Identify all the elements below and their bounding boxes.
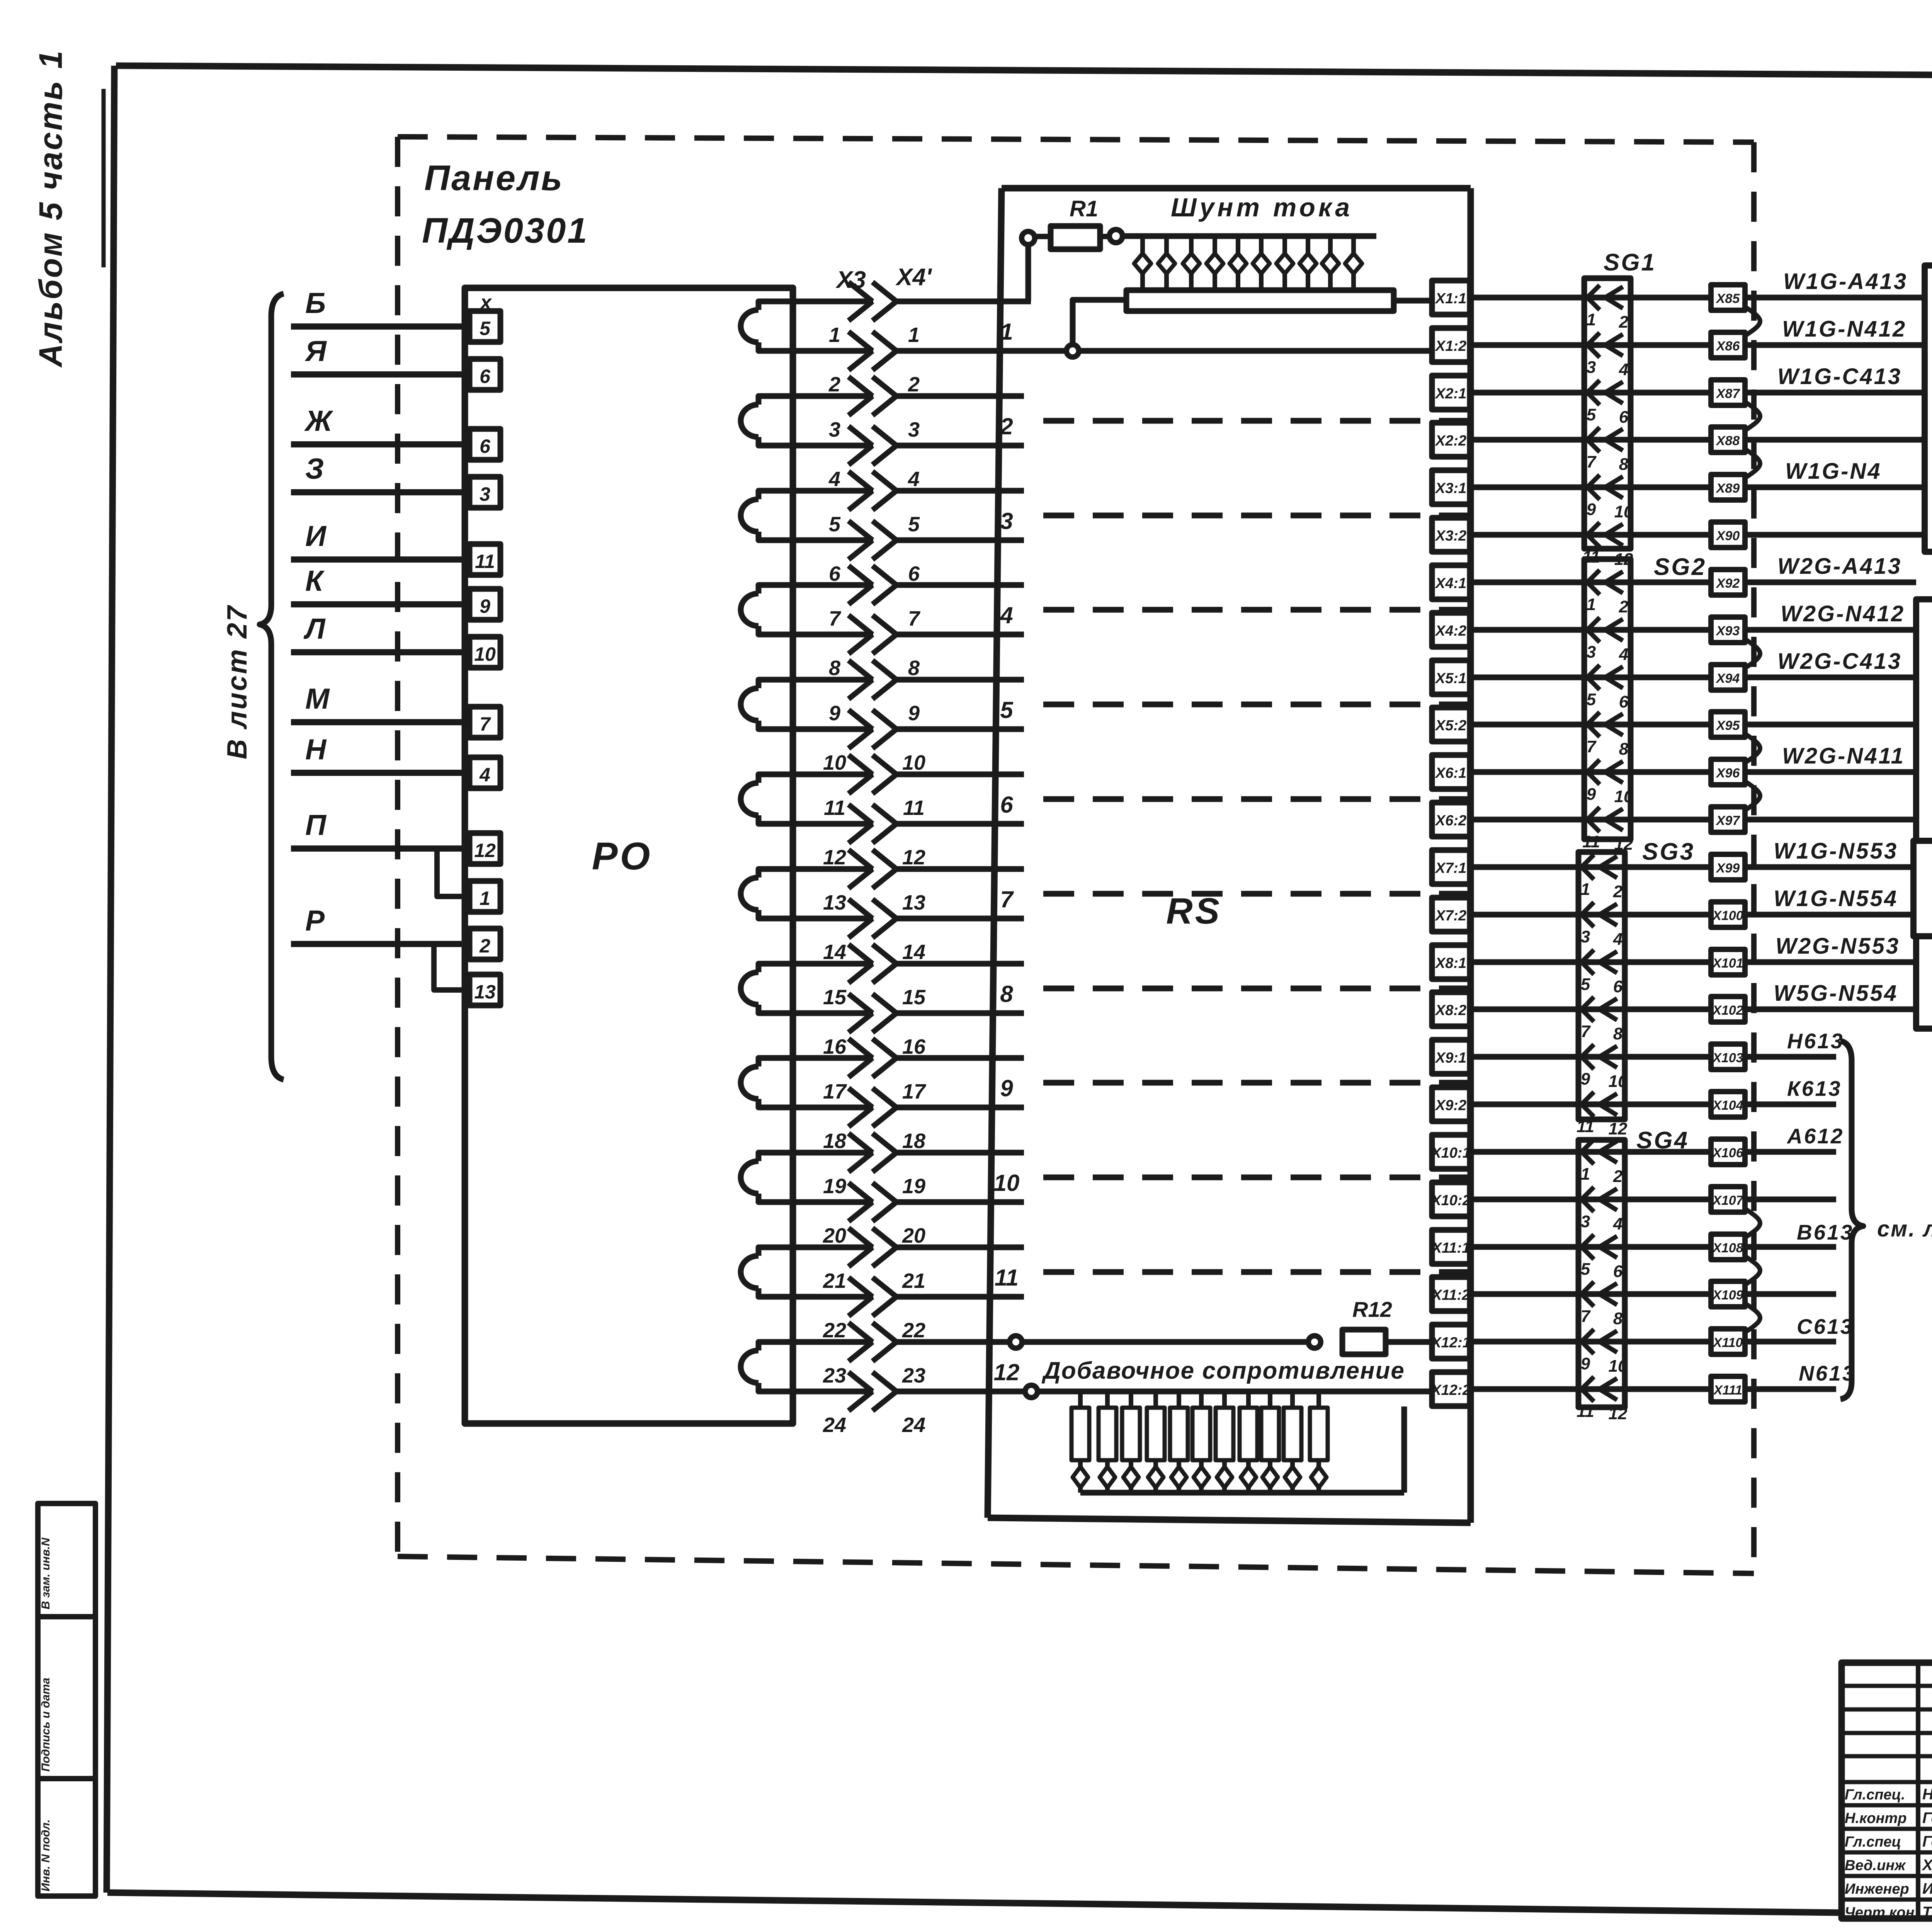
- svg-text:Н.контр: Н.контр: [1845, 1810, 1906, 1827]
- chevron X3 pin 6: [849, 521, 872, 560]
- svg-text:х: х: [479, 291, 492, 314]
- terminal X87: [1711, 380, 1745, 405]
- link to bus: [1073, 300, 1126, 345]
- wire X3/X4 pin 4: [793, 443, 873, 449]
- dashed line row 8: [1043, 986, 1468, 992]
- svg-text:2: 2: [479, 935, 490, 957]
- wire row 6 to SG: [1470, 532, 1711, 538]
- wire row 12 to SG: [1470, 817, 1711, 823]
- relay unit РО: [465, 288, 793, 1423]
- svg-text:5: 5: [1587, 690, 1596, 709]
- wire stub row 9 bottom: [896, 1105, 1024, 1111]
- svg-text:Горелик: Горелик: [1922, 1810, 1932, 1827]
- svg-text:X100: X100: [1712, 908, 1743, 923]
- svg-text:8: 8: [1613, 1024, 1623, 1043]
- wire stub row 2 bottom: [896, 443, 1024, 449]
- contact SG4 pins 11/12: [1582, 1377, 1594, 1401]
- svg-text:X97: X97: [1716, 813, 1741, 828]
- svg-text:X7:1: X7:1: [1435, 860, 1466, 876]
- wire row 21 to SG: [1470, 1244, 1711, 1250]
- wire row 14 to SG: [1470, 912, 1711, 918]
- chevron X4 pin 8: [872, 615, 896, 654]
- terminal box 7: [469, 707, 500, 738]
- wire X3/X4 pin 24: [793, 1389, 873, 1395]
- svg-text:1: 1: [908, 323, 920, 347]
- wire row 18 right: [1745, 1102, 1836, 1107]
- svg-text:Р: Р: [305, 904, 325, 937]
- terminal X3:1: [1432, 470, 1470, 504]
- terminal box 6: [469, 429, 500, 460]
- chevron X3 pin 22: [849, 1277, 872, 1316]
- wire row 9 right: [1745, 675, 1916, 680]
- chevron X3 pin 11: [849, 755, 872, 794]
- wire row 4 to SG: [1470, 437, 1711, 443]
- svg-text:12: 12: [823, 846, 846, 869]
- svg-text:Шунт тока: Шунт тока: [1171, 193, 1353, 222]
- contact SG4 pins 9/10: [1582, 1329, 1594, 1354]
- chevron X4 pin 15: [872, 944, 896, 983]
- terminal X102: [1711, 997, 1745, 1022]
- wire: [291, 941, 469, 947]
- dashed line row 11: [1043, 1269, 1468, 1275]
- svg-text:X107: X107: [1712, 1193, 1744, 1208]
- connector socket pair 21/22: [759, 1247, 793, 1256]
- contact SG4 pins 1/2: [1582, 1139, 1594, 1164]
- svg-text:РО: РО: [592, 835, 652, 878]
- svg-text:Инв. N подл.: Инв. N подл.: [39, 1819, 52, 1891]
- terminal X94: [1711, 665, 1745, 690]
- terminal box 6: [469, 359, 500, 390]
- wire row 12 right: [1745, 817, 1916, 823]
- svg-text:5: 5: [908, 513, 920, 536]
- svg-text:П: П: [305, 809, 327, 841]
- wire: [291, 845, 469, 852]
- svg-text:10: 10: [994, 1170, 1020, 1196]
- diode: [1290, 1460, 1295, 1466]
- diode: [1140, 236, 1145, 253]
- wire stub row 5 bottom: [896, 726, 1024, 732]
- resistor: [1078, 1391, 1083, 1408]
- wire stub row 7 top: [896, 866, 1024, 872]
- svg-text:Л: Л: [303, 612, 326, 645]
- svg-text:10: 10: [902, 751, 925, 774]
- svg-text:X12:2: X12:2: [1430, 1382, 1470, 1398]
- svg-text:6: 6: [908, 562, 920, 585]
- svg-text:13: 13: [902, 891, 925, 914]
- svg-text:X10:2: X10:2: [1430, 1192, 1470, 1209]
- svg-text:23: 23: [902, 1364, 925, 1387]
- svg-text:9: 9: [908, 702, 920, 725]
- svg-text:X94: X94: [1716, 671, 1740, 686]
- title block: [1842, 1663, 1932, 1918]
- dashed line row 5: [1043, 702, 1468, 707]
- chevron X3 pin 24: [849, 1372, 872, 1411]
- svg-text:X86: X86: [1716, 339, 1740, 354]
- resistor: [1246, 1391, 1251, 1408]
- svg-text:W1G-A413: W1G-A413: [1783, 269, 1908, 294]
- svg-text:X101: X101: [1712, 956, 1743, 971]
- wire X3/X4 pin 9: [793, 677, 873, 683]
- wire pin2 to X1:2: [896, 348, 1434, 354]
- chevron X4 pin 9: [872, 660, 896, 699]
- terminal X100: [1711, 902, 1745, 927]
- wire pin1 to R1: [896, 299, 1031, 304]
- terminal X4:1: [1432, 565, 1470, 599]
- resistor: [1199, 1391, 1204, 1408]
- chevron X4 pin 3: [872, 377, 896, 415]
- wire row 7 to SG: [1470, 580, 1711, 585]
- diode: [1153, 1460, 1158, 1466]
- diode: [1246, 1460, 1251, 1466]
- svg-text:W1G-C413: W1G-C413: [1777, 364, 1902, 389]
- svg-text:X5:2: X5:2: [1435, 718, 1466, 734]
- svg-text:1: 1: [1581, 880, 1590, 899]
- svg-text:10: 10: [1609, 1072, 1628, 1091]
- wire X3/X4 pin 8: [793, 632, 873, 638]
- svg-text:X12:1: X12:1: [1430, 1335, 1470, 1351]
- svg-text:Хрипуннова: Хрипуннова: [1922, 1857, 1932, 1874]
- contact SG2 pins 9/10: [1587, 760, 1600, 784]
- contact SG1 pins 11/12: [1587, 522, 1600, 547]
- test block SG1: [1584, 278, 1631, 549]
- svg-text:11: 11: [1582, 832, 1600, 851]
- svg-text:X4': X4': [895, 264, 932, 291]
- wire stub row 4 bottom: [896, 632, 1024, 638]
- svg-text:X85: X85: [1716, 291, 1740, 306]
- ladder bottom bus: [1080, 1490, 1404, 1496]
- chevron X4 pin 2: [872, 332, 896, 370]
- svg-text:2: 2: [828, 373, 840, 396]
- wire stub row 11 bottom: [896, 1294, 1024, 1300]
- svg-text:7: 7: [1587, 737, 1597, 756]
- contact SG4 pins 3/4: [1582, 1187, 1594, 1212]
- svg-text:W2G-A413: W2G-A413: [1777, 554, 1902, 579]
- cable box W2G: [1916, 599, 1932, 841]
- terminal X8:2: [1432, 992, 1470, 1026]
- svg-text:6: 6: [829, 562, 841, 585]
- svg-text:6: 6: [480, 366, 491, 387]
- wire row 19 to SG: [1470, 1149, 1711, 1155]
- terminal box 9: [469, 589, 500, 620]
- terminal X12:1: [1432, 1325, 1470, 1359]
- resistor: [1316, 1391, 1321, 1408]
- chevron X4 pin 6: [872, 521, 896, 560]
- terminal X85: [1711, 285, 1745, 310]
- wire row 2 right: [1745, 342, 1925, 348]
- svg-text:2: 2: [1613, 882, 1623, 901]
- svg-text:Гл.спец.: Гл.спец.: [1845, 1787, 1905, 1803]
- chevron X4 pin 12: [872, 804, 896, 843]
- svg-text:X88: X88: [1716, 434, 1740, 448]
- svg-text:7: 7: [1581, 1022, 1591, 1041]
- wire X3/X4 pin 5: [793, 488, 873, 494]
- jumper X row 8-9: [1745, 639, 1760, 668]
- jumper X row 3-4: [1745, 402, 1760, 430]
- wire row 23 to SG: [1470, 1339, 1711, 1345]
- svg-text:10: 10: [1614, 787, 1633, 806]
- svg-text:2: 2: [1000, 413, 1013, 439]
- terminal X7:2: [1432, 898, 1470, 932]
- chevron X3 pin 23: [849, 1323, 872, 1361]
- svg-text:5: 5: [1581, 975, 1590, 994]
- terminal box 3: [469, 477, 500, 508]
- svg-text:X3:1: X3:1: [1435, 480, 1466, 497]
- svg-text:К613: К613: [1787, 1077, 1842, 1100]
- contact SG2 pins 3/4: [1587, 617, 1600, 642]
- wire X3/X4 pin 2: [793, 348, 873, 354]
- wire X3/X4 pin 3: [793, 393, 873, 399]
- terminal X101: [1711, 949, 1745, 975]
- svg-text:12: 12: [994, 1359, 1020, 1385]
- wire X3/X4 pin 11: [793, 772, 873, 777]
- wire: [291, 601, 469, 607]
- wire X3/X4 pin 7: [793, 582, 873, 588]
- svg-text:Н613: Н613: [1787, 1029, 1844, 1053]
- connector socket pair 23/24: [759, 1342, 793, 1350]
- wire pin23: [896, 1339, 1321, 1345]
- svg-text:X3:2: X3:2: [1435, 528, 1466, 544]
- wire stub row 8 bottom: [896, 1010, 1024, 1016]
- svg-text:6: 6: [1619, 408, 1629, 427]
- svg-text:2: 2: [908, 373, 920, 396]
- wire row 22 to SG: [1470, 1291, 1711, 1297]
- dashed line row 10: [1043, 1175, 1468, 1180]
- wire X3/X4 pin 21: [793, 1245, 873, 1250]
- diode: [1105, 1460, 1110, 1466]
- svg-text:3: 3: [1581, 1212, 1590, 1231]
- svg-text:W1G-N4: W1G-N4: [1785, 459, 1882, 484]
- svg-text:15: 15: [902, 986, 926, 1009]
- chevron X4 pin 1: [872, 282, 896, 321]
- brace В лист 27: [260, 294, 284, 1080]
- svg-text:X5:1: X5:1: [1435, 670, 1466, 687]
- wire stub row 4 top: [896, 582, 1024, 588]
- svg-text:ПДЭ0301: ПДЭ0301: [422, 211, 588, 250]
- wire: [291, 719, 469, 725]
- svg-text:С613: С613: [1797, 1315, 1854, 1338]
- contact SG3 pins 11/12: [1582, 1092, 1594, 1117]
- svg-text:8: 8: [1613, 1309, 1623, 1328]
- terminal box 5: [469, 311, 500, 342]
- chevron X3 pin 8: [849, 615, 872, 654]
- contact SG4 pins 7/8: [1582, 1282, 1594, 1306]
- resistor: [1153, 1391, 1158, 1408]
- terminal X110: [1711, 1329, 1745, 1354]
- svg-text:4: 4: [479, 764, 490, 786]
- cable box W1G lower: [1913, 841, 1932, 936]
- svg-text:3: 3: [1587, 643, 1596, 662]
- terminal X111: [1711, 1376, 1745, 1402]
- dashed line row 7: [1043, 891, 1468, 897]
- wire X3/X4 pin 13: [793, 866, 873, 872]
- svg-text:1: 1: [1000, 319, 1013, 345]
- svg-text:И: И: [305, 520, 327, 552]
- svg-text:Инженер: Инженер: [1845, 1881, 1909, 1897]
- svg-text:2: 2: [1619, 313, 1629, 332]
- terminal X99: [1711, 854, 1745, 880]
- terminal X1:1: [1432, 281, 1470, 315]
- chevron X3 pin 20: [849, 1183, 872, 1221]
- resistor R12: [1342, 1330, 1386, 1354]
- wire X3/X4 pin 1: [793, 299, 873, 304]
- svg-text:7: 7: [480, 713, 491, 735]
- svg-text:4: 4: [1613, 930, 1622, 949]
- svg-text:7: 7: [908, 607, 921, 630]
- svg-text:R12: R12: [1352, 1297, 1392, 1321]
- terminal X3:2: [1432, 518, 1470, 552]
- svg-text:1: 1: [480, 888, 490, 909]
- diode: [1351, 236, 1356, 253]
- svg-text:18: 18: [902, 1129, 925, 1153]
- svg-text:12: 12: [1609, 1119, 1628, 1138]
- chevron X4 pin 21: [872, 1228, 896, 1267]
- svg-text:W2G-N553: W2G-N553: [1776, 934, 1900, 959]
- chevron X4 pin 24: [872, 1372, 896, 1411]
- wire X3/X4 pin 18: [793, 1105, 873, 1111]
- svg-text:8: 8: [908, 656, 920, 680]
- svg-text:X4:2: X4:2: [1435, 623, 1466, 639]
- svg-text:9: 9: [1587, 785, 1596, 804]
- jumper X row 1-2: [1745, 307, 1760, 336]
- resistor: [1268, 1391, 1272, 1408]
- svg-text:4: 4: [908, 468, 920, 491]
- connector socket pair 11/12: [759, 774, 793, 783]
- svg-text:9: 9: [480, 595, 490, 617]
- terminal box 10: [469, 637, 500, 668]
- terminal X92: [1711, 570, 1745, 595]
- svg-text:11: 11: [824, 796, 845, 820]
- svg-text:X2:2: X2:2: [1435, 433, 1466, 449]
- svg-text:X93: X93: [1716, 624, 1740, 638]
- svg-text:9: 9: [1000, 1075, 1013, 1101]
- wire X3/X4 pin 16: [793, 1010, 873, 1016]
- svg-text:R1: R1: [1070, 196, 1098, 221]
- connector socket pair 3/4: [759, 396, 793, 405]
- wire row 17 right: [1745, 1054, 1836, 1060]
- wire stub row 6 bottom: [896, 821, 1024, 827]
- svg-text:В лист 27: В лист 27: [222, 604, 253, 759]
- contact SG2 pins 11/12: [1587, 807, 1600, 832]
- svg-text:X96: X96: [1716, 766, 1740, 781]
- contact SG2 pins 5/6: [1587, 665, 1600, 690]
- svg-text:17: 17: [902, 1080, 927, 1103]
- left margin table: [38, 1503, 95, 1896]
- wire row 10 to SG: [1470, 722, 1711, 728]
- svg-text:Добавочное сопротивление: Добавочное сопротивление: [1041, 1357, 1405, 1384]
- wire row 1 right: [1745, 295, 1925, 301]
- svg-text:X103: X103: [1712, 1051, 1743, 1065]
- chevron X3 pin 13: [849, 850, 872, 888]
- svg-text:X11:1: X11:1: [1431, 1240, 1470, 1256]
- dashed line row 2: [1043, 418, 1468, 424]
- junction circle row1: [1066, 345, 1079, 357]
- terminal X109: [1711, 1281, 1745, 1307]
- svg-text:7: 7: [829, 607, 842, 630]
- wire row 24 to SG: [1470, 1386, 1711, 1392]
- resistor: [1290, 1391, 1295, 1408]
- terminal X12:2: [1432, 1372, 1470, 1406]
- chevron X3 pin 7: [849, 566, 872, 604]
- svg-text:4: 4: [1619, 360, 1628, 379]
- wire row 2 to SG: [1470, 342, 1711, 348]
- svg-text:см. лист 27: см. лист 27: [1877, 1216, 1932, 1242]
- brace см. лист 27: [1840, 1041, 1863, 1399]
- svg-text:9: 9: [1587, 500, 1596, 519]
- wire stub row 7 bottom: [896, 916, 1024, 922]
- svg-text:А612: А612: [1786, 1124, 1844, 1148]
- resistor: [1177, 1391, 1181, 1408]
- svg-text:12: 12: [902, 846, 925, 869]
- svg-text:X8:2: X8:2: [1435, 1002, 1466, 1019]
- wire row 17 to SG: [1470, 1054, 1711, 1060]
- connector socket pair 17/18: [759, 1058, 793, 1066]
- wire row 8 to SG: [1470, 627, 1711, 633]
- svg-text:9: 9: [1581, 1354, 1590, 1373]
- svg-text:16: 16: [823, 1035, 847, 1058]
- svg-text:X8:1: X8:1: [1435, 955, 1466, 971]
- svg-text:6: 6: [480, 435, 491, 457]
- chevron X3 pin 3: [849, 377, 872, 415]
- wire row 5 to SG: [1470, 485, 1711, 490]
- svg-text:20: 20: [902, 1224, 925, 1247]
- svg-text:X99: X99: [1716, 861, 1740, 876]
- wire row 11 right: [1745, 769, 1916, 775]
- contact SG2 pins 1/2: [1587, 570, 1600, 595]
- svg-text:8: 8: [1619, 740, 1629, 759]
- panel dashed border ПДЭ0301: [398, 137, 1754, 142]
- svg-text:17: 17: [823, 1080, 847, 1103]
- chevron X3 pin 17: [849, 1039, 872, 1077]
- svg-text:RS: RS: [1166, 891, 1222, 932]
- chevron X4 pin 13: [872, 850, 896, 888]
- svg-text:16: 16: [902, 1035, 926, 1058]
- svg-text:9: 9: [1581, 1070, 1590, 1088]
- sheet frame: [116, 66, 1932, 76]
- wire X3/X4 pin 10: [793, 726, 873, 732]
- wire: [291, 770, 469, 776]
- wire: [291, 649, 469, 655]
- terminal X2:2: [1432, 423, 1470, 457]
- terminal X88: [1711, 427, 1745, 452]
- svg-text:5: 5: [1581, 1260, 1590, 1279]
- chevron X4 pin 4: [872, 426, 896, 465]
- svg-text:7: 7: [1587, 452, 1597, 471]
- jumper X row 21-22: [1745, 1256, 1760, 1285]
- svg-text:7: 7: [1000, 886, 1014, 912]
- svg-text:21: 21: [902, 1269, 925, 1293]
- contact SG3 pins 7/8: [1582, 997, 1594, 1022]
- wire stub row 10 bottom: [896, 1199, 1024, 1205]
- svg-text:6: 6: [1613, 977, 1623, 996]
- wire pin24 / ladder top rail: [896, 1389, 1434, 1395]
- diode: [1078, 1460, 1083, 1466]
- wire stub row 6 top: [896, 772, 1024, 777]
- wire X3/X4 pin 19: [793, 1150, 873, 1156]
- svg-text:Подпись и дата: Подпись и дата: [39, 1678, 52, 1772]
- diode: [1236, 236, 1240, 253]
- contact SG1 pins 7/8: [1587, 427, 1600, 452]
- diode: [1164, 236, 1169, 253]
- svg-text:6: 6: [1000, 792, 1013, 818]
- terminal X10:2: [1432, 1182, 1470, 1216]
- wire bus to X1:1: [1394, 298, 1434, 304]
- terminal X95: [1711, 712, 1745, 737]
- terminal X97: [1711, 807, 1745, 832]
- chevron X3 pin 21: [849, 1228, 872, 1267]
- terminal X96: [1711, 759, 1745, 785]
- svg-text:3: 3: [1581, 927, 1590, 946]
- chevron X4 pin 20: [872, 1183, 896, 1221]
